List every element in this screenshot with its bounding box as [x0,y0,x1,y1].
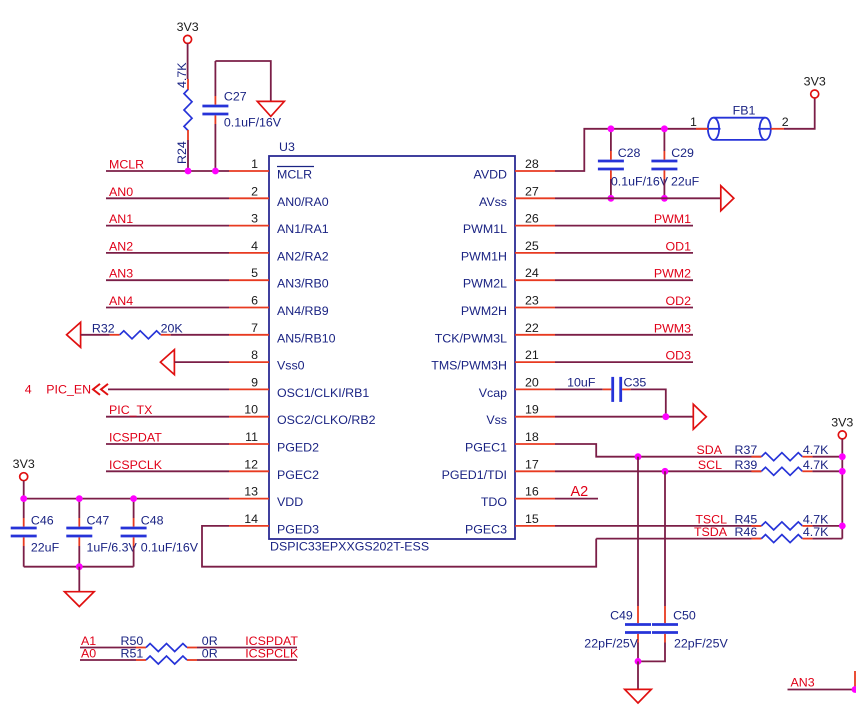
svg-text:ICSPCLK: ICSPCLK [109,458,163,472]
svg-text:0.1uF/16V: 0.1uF/16V [224,116,282,130]
svg-text:FB1: FB1 [733,104,756,118]
svg-text:4.7K: 4.7K [175,62,189,88]
svg-text:PWM2: PWM2 [654,267,691,281]
svg-text:AN3: AN3 [109,267,133,281]
svg-text:R51: R51 [121,647,144,661]
svg-text:C49: C49 [610,608,633,622]
svg-text:25: 25 [525,239,539,253]
svg-text:Vcap: Vcap [479,386,507,400]
svg-text:9: 9 [251,375,258,389]
svg-text:AVDD: AVDD [473,168,507,182]
svg-text:C27: C27 [224,89,247,103]
svg-text:VDD: VDD [277,495,303,509]
svg-text:PGED2: PGED2 [277,441,319,455]
svg-text:7: 7 [251,321,258,335]
svg-text:1: 1 [690,115,697,129]
svg-text:Vss0: Vss0 [277,359,305,373]
svg-text:22pF/25V: 22pF/25V [584,636,638,650]
svg-text:PGEC3: PGEC3 [465,522,507,536]
svg-text:14: 14 [244,512,258,526]
svg-text:Vss: Vss [486,413,507,427]
svg-text:OD1: OD1 [666,239,692,253]
svg-text:ICSPDAT: ICSPDAT [109,431,162,445]
svg-text:0.1uF/16V: 0.1uF/16V [611,175,669,189]
svg-text:C35: C35 [624,375,647,389]
svg-text:22pF/25V: 22pF/25V [674,636,728,650]
svg-text:2: 2 [782,115,789,129]
svg-text:3V3: 3V3 [831,415,853,429]
svg-text:15: 15 [525,512,539,526]
svg-text:SCL: SCL [698,458,722,472]
svg-text:PWM1: PWM1 [654,212,691,226]
svg-text:TMS/PWM3H: TMS/PWM3H [431,359,507,373]
svg-text:26: 26 [525,212,539,226]
svg-text:AN1/RA1: AN1/RA1 [277,222,329,236]
svg-text:PIC_EN: PIC_EN [46,382,91,396]
svg-text:A0: A0 [81,647,96,661]
svg-text:C47: C47 [87,514,110,528]
svg-text:28: 28 [525,157,539,171]
svg-text:18: 18 [525,430,539,444]
svg-text:21: 21 [525,348,539,362]
svg-text:10uF: 10uF [567,375,596,389]
svg-text:PWM1H: PWM1H [461,249,507,263]
svg-text:AN4: AN4 [109,294,133,308]
svg-text:AN0: AN0 [109,185,133,199]
svg-text:22: 22 [525,321,539,335]
svg-text:3: 3 [251,212,258,226]
svg-text:12: 12 [244,457,258,471]
svg-text:MCLR: MCLR [277,168,312,182]
svg-text:PIC_TX: PIC_TX [109,403,152,417]
svg-text:4: 4 [251,239,258,253]
svg-text:C29: C29 [671,146,694,160]
svg-text:C50: C50 [673,608,696,622]
svg-text:23: 23 [525,294,539,308]
svg-text:3V3: 3V3 [804,75,826,89]
svg-text:3V3: 3V3 [13,457,35,471]
svg-text:OD3: OD3 [666,349,692,363]
svg-text:2: 2 [251,184,258,198]
svg-text:AVss: AVss [479,195,507,209]
svg-text:MCLR: MCLR [109,158,144,172]
svg-text:5: 5 [251,266,258,280]
svg-text:4.7K: 4.7K [803,525,829,539]
svg-text:PWM1L: PWM1L [463,222,507,236]
svg-text:1uF/6.3V: 1uF/6.3V [87,540,138,554]
svg-text:0R: 0R [202,647,218,661]
svg-text:PWM2L: PWM2L [463,277,507,291]
svg-text:20: 20 [525,375,539,389]
svg-text:AN3/RB0: AN3/RB0 [277,277,329,291]
svg-text:19: 19 [525,403,539,417]
svg-text:PGED1/TDI: PGED1/TDI [442,468,507,482]
svg-text:4.7K: 4.7K [803,458,829,472]
svg-text:20K: 20K [161,321,184,335]
svg-text:8: 8 [251,348,258,362]
svg-text:1: 1 [251,157,258,171]
svg-text:AN0/RA0: AN0/RA0 [277,195,329,209]
svg-text:3V3: 3V3 [177,20,199,34]
svg-text:R32: R32 [92,321,115,335]
svg-text:TDO: TDO [481,495,508,509]
svg-text:A2: A2 [571,484,589,500]
svg-text:16: 16 [525,485,539,499]
svg-text:PWM2H: PWM2H [461,304,507,318]
svg-text:22uF: 22uF [671,175,700,189]
svg-text:AN5/RB10: AN5/RB10 [277,331,336,345]
svg-text:27: 27 [525,184,539,198]
svg-text:PGEC1: PGEC1 [465,441,507,455]
svg-text:R46: R46 [735,525,758,539]
svg-text:24: 24 [525,266,539,280]
svg-text:R24: R24 [175,141,189,164]
svg-text:4.7K: 4.7K [803,443,829,457]
svg-text:SDA: SDA [697,443,723,457]
svg-text:R39: R39 [735,458,758,472]
svg-text:17: 17 [525,457,539,471]
svg-text:13: 13 [244,485,258,499]
svg-text:0.1uF/16V: 0.1uF/16V [141,540,199,554]
svg-text:OD2: OD2 [666,294,692,308]
svg-text:AN3: AN3 [791,676,815,690]
svg-text:C46: C46 [31,514,54,528]
svg-text:C28: C28 [618,146,641,160]
svg-text:22uF: 22uF [31,540,60,554]
svg-text:ICSPCLK: ICSPCLK [245,647,299,661]
svg-text:R37: R37 [735,443,758,457]
svg-text:11: 11 [245,430,258,444]
svg-text:PGEC2: PGEC2 [277,468,319,482]
svg-text:4: 4 [25,382,32,396]
svg-text:C48: C48 [141,514,164,528]
svg-text:TCK/PWM3L: TCK/PWM3L [435,331,507,345]
svg-text:AN2: AN2 [109,239,133,253]
svg-text:OSC1/CLKI/RB1: OSC1/CLKI/RB1 [277,386,369,400]
svg-text:TSDA: TSDA [694,525,728,539]
svg-text:OSC2/CLKO/RB2: OSC2/CLKO/RB2 [277,413,376,427]
svg-text:6: 6 [251,294,258,308]
svg-text:DSPIC33EPXXGS202T-ESS: DSPIC33EPXXGS202T-ESS [270,540,429,554]
svg-text:AN2/RA2: AN2/RA2 [277,249,329,263]
svg-text:U3: U3 [279,140,295,154]
svg-text:AN4/RB9: AN4/RB9 [277,304,329,318]
svg-text:10: 10 [244,403,258,417]
svg-text:AN1: AN1 [109,212,133,226]
svg-text:PWM3: PWM3 [654,321,691,335]
svg-text:PGED3: PGED3 [277,522,319,536]
